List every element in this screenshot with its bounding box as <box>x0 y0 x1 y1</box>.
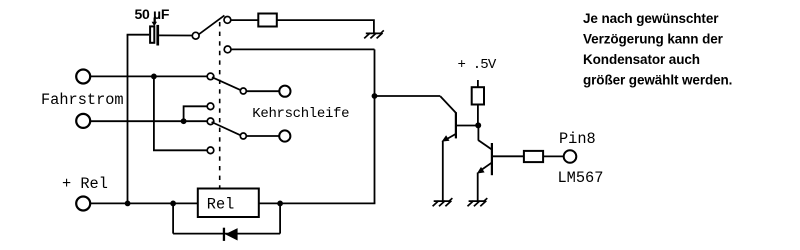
svg-text:Fahrstrom: Fahrstrom <box>41 91 124 109</box>
moving contact row2 <box>240 133 246 139</box>
note text block <box>583 11 732 88</box>
switch S1 pole contact <box>192 32 199 39</box>
svg-text:+ .5V: + .5V <box>458 57 497 73</box>
diode branch left vertical <box>172 203 174 233</box>
resistor R2 stem bottom <box>477 105 479 126</box>
wire second row to right rail <box>231 48 375 50</box>
wire throw to resistor R1 <box>231 19 258 21</box>
Q2 base diagonal <box>478 140 491 149</box>
wire left rail vertical <box>127 35 129 204</box>
Q2 emitter arrowhead <box>477 167 485 174</box>
switch lever row2 <box>212 122 241 135</box>
wire to Q1 base <box>375 95 441 97</box>
relay coil box Rel <box>198 189 259 218</box>
wire T1 to contact c1 <box>91 75 208 77</box>
wire bottom main <box>91 202 376 204</box>
Q1 emitter vertical <box>442 141 444 201</box>
contact c3 <box>207 118 214 125</box>
resistor R1 <box>258 14 277 27</box>
terminal T2 <box>76 114 90 128</box>
capacitor C1 label 50 µF <box>135 6 170 22</box>
junction dot node base Q2 <box>475 122 481 128</box>
contact upper second row <box>224 46 231 53</box>
moving contact row1 <box>240 88 246 94</box>
svg-text:Kondensator auch: Kondensator auch <box>583 52 700 67</box>
svg-text:Rel: Rel <box>207 195 235 213</box>
contact c4 <box>207 147 214 154</box>
contact c1 <box>207 73 214 80</box>
svg-text:größer gewählt werden.: größer gewählt werden. <box>583 72 732 87</box>
svg-text:50 µF: 50 µF <box>135 6 170 22</box>
wire row2 to throw terminal <box>246 135 279 137</box>
Q1 base diagonal <box>440 96 456 113</box>
junction dot right rail to Q1 base <box>372 93 378 99</box>
wire cap left to rail <box>127 34 150 36</box>
junction dot diode left <box>170 201 176 207</box>
svg-text:+ Rel: + Rel <box>62 175 108 193</box>
wire down to row 4 <box>154 76 207 150</box>
junction dot rail bottom <box>125 201 131 207</box>
svg-text:LM567: LM567 <box>558 169 604 187</box>
throw terminal big circle row2 <box>279 130 290 141</box>
junction dot diode right <box>277 201 283 207</box>
junction dot on wire T1 <box>151 74 157 80</box>
resistor R3 <box>524 151 543 162</box>
wire R3 to pin circle <box>543 155 564 157</box>
Q1 collector wire <box>457 125 479 127</box>
switch S1 throw contact <box>224 17 231 24</box>
ground G1 <box>433 198 453 206</box>
capacitor C1 plates <box>150 25 159 46</box>
Q1 emitter diagonal <box>445 134 457 141</box>
wire T2 to contact c3 <box>91 120 208 122</box>
wire cap right to switch S1 <box>159 34 192 36</box>
transistor Q2 base bar <box>491 143 493 175</box>
pin terminal circle <box>564 150 577 163</box>
wire up to contact c2 <box>184 106 208 121</box>
diode branch right vertical <box>279 203 281 233</box>
ground (top right) <box>364 30 384 38</box>
ground G2 <box>468 198 488 206</box>
junction dot on wire T2 <box>181 118 187 124</box>
svg-text:Kehrschleife: Kehrschleife <box>252 106 349 122</box>
Q2 base vertical <box>477 125 479 140</box>
wire R1 to ground <box>277 20 374 33</box>
terminal T1 <box>76 70 90 84</box>
transistor Q1 base bar <box>455 112 457 138</box>
Q2 emitter diagonal <box>480 163 492 171</box>
diode branch bottom wire <box>173 233 280 235</box>
dashed mechanical link <box>219 22 221 188</box>
resistor R2 <box>472 87 484 104</box>
contact c2 <box>207 103 214 110</box>
Q2 collector wire <box>493 155 524 157</box>
resistor R2 stem top <box>477 80 479 87</box>
svg-text:Je nach gewünschter: Je nach gewünschter <box>583 11 719 26</box>
Q2 emitter vertical <box>477 173 479 202</box>
wire row1 to throw terminal <box>246 90 279 92</box>
throw terminal big circle row1 <box>279 86 290 97</box>
svg-text:Pin8: Pin8 <box>559 130 596 148</box>
switch S1 lever <box>199 15 224 34</box>
switch lever row1 <box>212 77 241 90</box>
diode D1 <box>223 228 238 241</box>
capacitor C1 arrow <box>152 18 157 27</box>
wire right rail vertical <box>374 49 376 203</box>
Q1 emitter arrowhead <box>442 135 450 141</box>
svg-text:Verzögerung kann der: Verzögerung kann der <box>583 31 724 46</box>
terminal T3 <box>76 197 90 211</box>
